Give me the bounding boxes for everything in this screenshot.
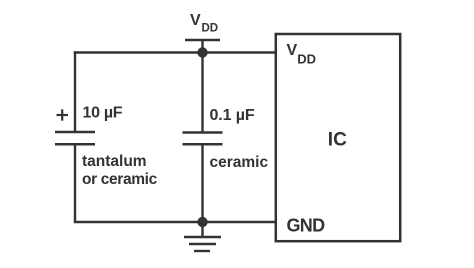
svg-text:0.1 µF: 0.1 µF — [210, 107, 255, 124]
capacitor C2 plates — [183, 133, 223, 145]
svg-text:10 µF: 10 µF — [83, 105, 123, 122]
svg-text:DD: DD — [202, 23, 219, 35]
wire top horizontal — [74, 51, 277, 53]
svg-text:DD: DD — [297, 51, 316, 66]
junction dot top — [197, 47, 207, 57]
svg-text:tantalum: tantalum — [82, 153, 147, 170]
ground — [184, 222, 221, 251]
svg-text:V: V — [287, 42, 298, 59]
svg-text:V: V — [190, 12, 201, 29]
wire left vertical lower — [74, 144, 76, 223]
wire middle vertical lower — [201, 144, 203, 222]
svg-text:or ceramic: or ceramic — [82, 171, 158, 188]
wire middle vertical upper — [201, 53, 203, 133]
polarity plus sign C1 — [57, 109, 69, 120]
power symbol VDD — [185, 40, 220, 53]
junction dot bottom — [197, 217, 207, 227]
capacitor C1 plates — [55, 132, 95, 144]
svg-text:IC: IC — [328, 129, 347, 150]
wire bottom horizontal — [74, 221, 277, 223]
wire left vertical upper — [74, 51, 76, 132]
svg-text:GND: GND — [287, 215, 326, 235]
IC U1 box — [276, 34, 400, 241]
svg-text:ceramic: ceramic — [210, 154, 269, 171]
